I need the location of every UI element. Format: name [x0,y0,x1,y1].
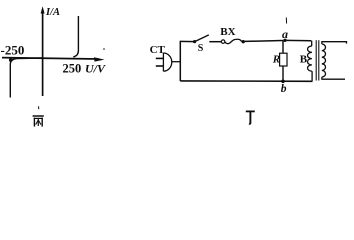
svg-text:b: b [281,83,287,95]
svg-text:BX: BX [220,26,235,38]
svg-text:R: R [272,54,280,66]
svg-text:U/V: U/V [85,61,106,75]
svg-text:-250: -250 [1,42,25,57]
svg-text:a: a [282,27,288,41]
svg-text:250: 250 [63,61,82,75]
svg-text:CT: CT [150,44,166,56]
svg-text:S: S [198,43,204,54]
svg-text:B: B [300,54,308,66]
svg-text:I/A: I/A [45,7,60,18]
